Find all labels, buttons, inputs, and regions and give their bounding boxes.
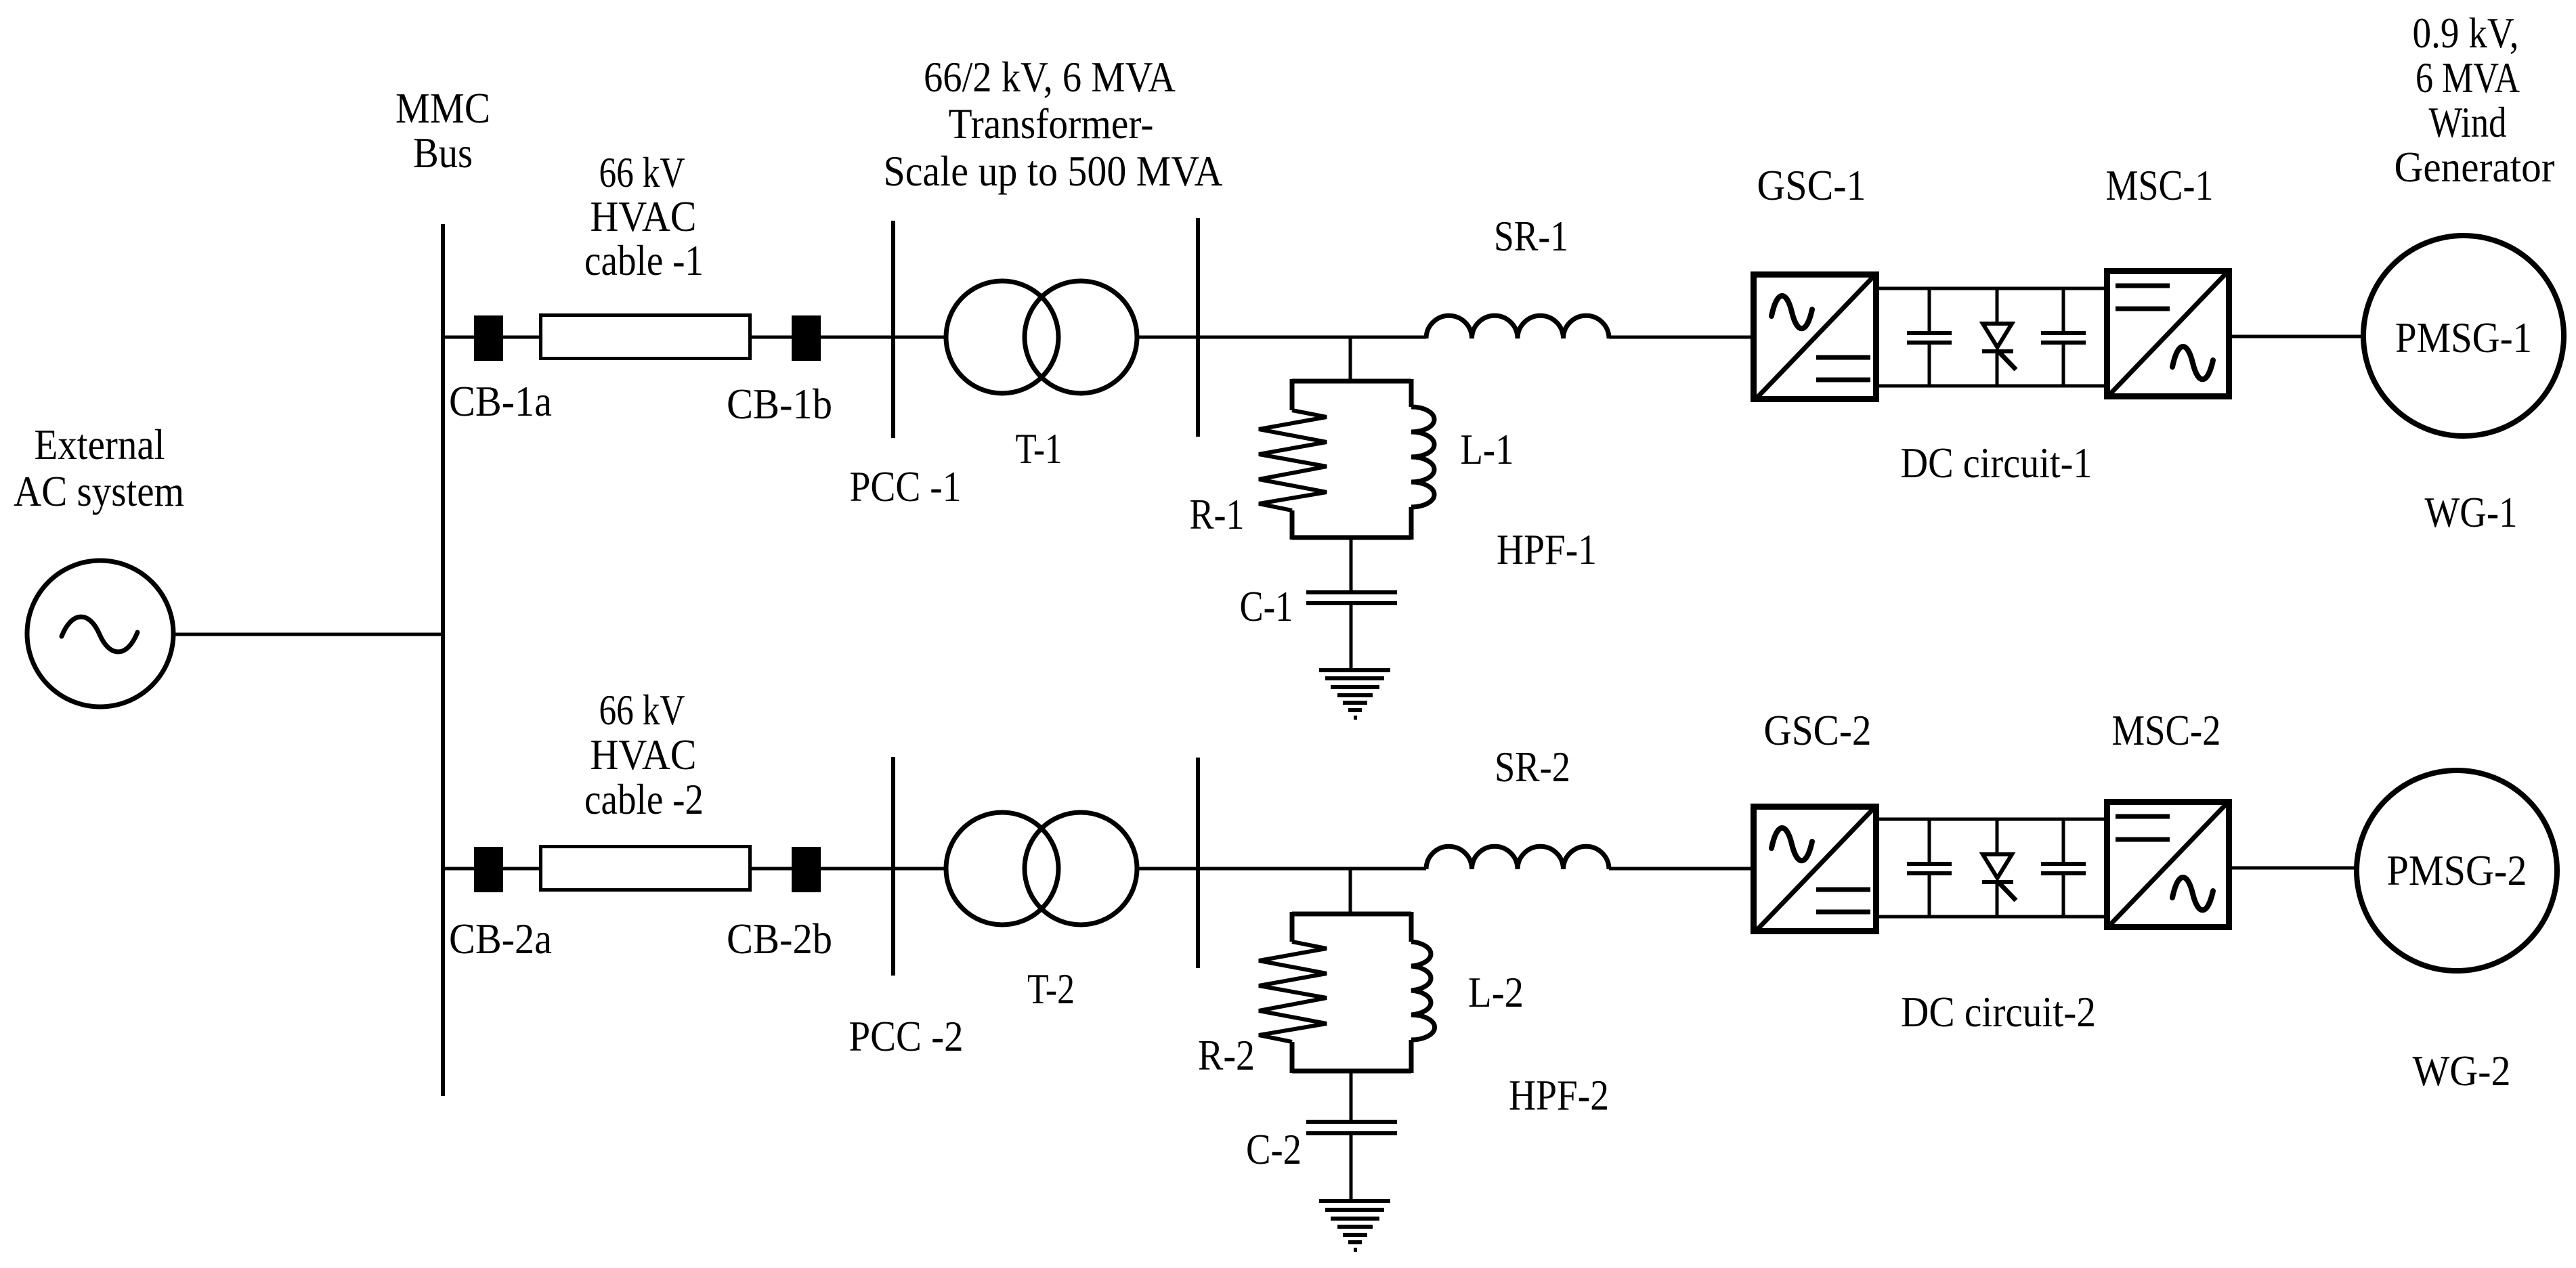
HPF-2 bottom conductor xyxy=(1292,1069,1411,1074)
DC rail top (circuit 1) xyxy=(1879,287,2105,290)
GSC-2 DC bars xyxy=(1816,890,1870,912)
svg-text:L-1: L-1 xyxy=(1461,425,1514,473)
svg-text:CB-1b: CB-1b xyxy=(727,380,832,428)
circuit breaker CB-1a xyxy=(474,315,503,361)
svg-text:R-2: R-2 xyxy=(1198,1031,1255,1079)
svg-text:C-1: C-1 xyxy=(1240,582,1293,630)
ground (HPF-2) xyxy=(1319,1201,1390,1250)
series reactor SR-2 xyxy=(1426,846,1609,869)
capacitor (DC2 left) plates xyxy=(1907,864,1952,873)
capacitor lead (DC1 left, bottom) xyxy=(1928,343,1931,386)
svg-text:PCC -2: PCC -2 xyxy=(849,1012,964,1060)
svg-text:SR-1: SR-1 xyxy=(1494,212,1568,260)
resistor R-2 zigzag xyxy=(1259,942,1327,1042)
capacitor lead (DC2 left, top) xyxy=(1928,819,1931,864)
svg-text:WG-1: WG-1 xyxy=(2425,488,2518,536)
svg-text:DC circuit-2: DC circuit-2 xyxy=(1901,988,2096,1036)
svg-text:66 kV: 66 kV xyxy=(599,148,685,196)
wire: MSC-2 to PMSG-2 xyxy=(2232,867,2357,870)
svg-text:cable -2: cable -2 xyxy=(584,775,704,823)
converter MSC-1 box xyxy=(2107,271,2229,397)
generator PMSG-2 circle xyxy=(2357,770,2557,971)
HPF-2 left drop to resistor xyxy=(1290,912,1295,942)
ground (HPF-1) xyxy=(1319,670,1390,718)
wire: HPF-1 to capacitor C-1 xyxy=(1350,538,1353,592)
bus bar PCC-2 xyxy=(891,757,895,976)
MSC-2 DC bars xyxy=(2116,816,2170,839)
HPF-1 right drop below inductor xyxy=(1409,507,1414,540)
HPF-2 left drop below resistor xyxy=(1290,1042,1295,1073)
svg-text:L-2: L-2 xyxy=(1468,968,1524,1016)
DC rail bottom (circuit 2) xyxy=(1879,915,2105,919)
generator PMSG-1 circle xyxy=(2363,236,2564,436)
wire: cable-2 to CB-2b xyxy=(752,867,792,871)
bus bar (2 kV side, circuit 1) xyxy=(1196,218,1200,437)
inductor L-2 coils xyxy=(1411,942,1435,1040)
svg-text:MSC-2: MSC-2 xyxy=(2112,706,2221,754)
svg-text:cable -1: cable -1 xyxy=(584,236,704,284)
DC rail top (circuit 2) xyxy=(1879,818,2105,821)
thyristor lead bottom (DC1) xyxy=(1996,351,1999,386)
capacitor lead (DC2 right, top) xyxy=(2062,819,2065,864)
wire: bus to CB-2a xyxy=(443,867,474,871)
svg-text:HVAC: HVAC xyxy=(591,192,697,240)
capacitor (DC1 left) plates xyxy=(1907,333,1952,343)
transformer T-1 xyxy=(946,281,1137,393)
svg-text:HPF-1: HPF-1 xyxy=(1497,525,1597,573)
svg-text:Bus: Bus xyxy=(413,129,473,177)
bus bar PCC-1 xyxy=(891,221,895,438)
capacitor lead (DC2 left, bottom) xyxy=(1928,873,1931,917)
wire: CB-2b to transformer T-2 xyxy=(821,867,948,871)
svg-text:Transformer-: Transformer- xyxy=(949,100,1154,148)
MSC-2 AC sine xyxy=(2172,877,2213,910)
node stub to HPF-1 xyxy=(1349,337,1352,383)
thyristor cathode bar (DC1) xyxy=(1982,349,2013,353)
svg-text:HVAC: HVAC xyxy=(591,730,697,779)
svg-text:GSC-2: GSC-2 xyxy=(1764,706,1872,754)
capacitor lead (DC1 right, top) xyxy=(2062,288,2065,333)
thyristor triangle (DC1) xyxy=(1983,324,2012,347)
GSC-1 AC sine xyxy=(1772,296,1812,328)
capacitor C-2 top plate xyxy=(1306,1120,1397,1124)
node stub to HPF-2 xyxy=(1349,869,1352,915)
svg-text:Generator: Generator xyxy=(2395,143,2555,191)
GSC-2 diagonal xyxy=(1757,808,1874,930)
wire: SR-1 to GSC-1 xyxy=(1609,336,1751,339)
capacitor C-1 top plate xyxy=(1306,590,1397,594)
wire: AC source to MMC bus xyxy=(171,633,443,636)
wire: bus to CB-1a xyxy=(443,336,474,339)
HPF-2 top conductor xyxy=(1292,912,1411,917)
svg-text:HPF-2: HPF-2 xyxy=(1509,1071,1609,1119)
capacitor lead (DC1 right, bottom) xyxy=(2062,343,2065,386)
wire: MSC-1 to PMSG-1 xyxy=(2232,335,2365,338)
svg-text:T-1: T-1 xyxy=(1016,424,1062,473)
svg-text:0.9 kV,: 0.9 kV, xyxy=(2413,9,2519,57)
capacitor (DC2 right) plates xyxy=(2041,864,2086,873)
circuit breaker CB-2b xyxy=(792,847,821,892)
wire: transformer T-2 to SR-2 xyxy=(1136,867,1426,871)
wire: HPF-2 to capacitor C-2 xyxy=(1350,1071,1353,1122)
wire: CB-2a to cable-2 xyxy=(503,867,539,871)
wire: cable-1 to CB-1b xyxy=(752,336,792,339)
HPF-1 top conductor xyxy=(1292,379,1411,384)
MSC-1 AC sine xyxy=(2172,347,2213,379)
svg-text:PMSG-1: PMSG-1 xyxy=(2395,313,2532,362)
HPF-2 right drop to inductor xyxy=(1409,912,1414,942)
thyristor gate stroke (DC1) xyxy=(1998,351,2016,370)
svg-text:GSC-1: GSC-1 xyxy=(1757,161,1866,209)
GSC-2 AC sine xyxy=(1772,828,1812,860)
HPF-1 left drop to resistor xyxy=(1290,379,1295,410)
svg-text:CB-1a: CB-1a xyxy=(449,377,552,425)
AC source: external AC system xyxy=(27,561,173,707)
HPF-1 bottom conductor xyxy=(1292,535,1411,540)
svg-text:SR-2: SR-2 xyxy=(1495,743,1570,791)
converter GSC-1 box xyxy=(1754,275,1876,399)
svg-text:PMSG-2: PMSG-2 xyxy=(2387,846,2527,894)
wire: CB-1b to transformer T-1 xyxy=(821,336,948,339)
thyristor lead top (DC1) xyxy=(1996,288,1999,325)
svg-text:WG-2: WG-2 xyxy=(2413,1047,2511,1095)
converter GSC-2 box xyxy=(1754,807,1876,932)
capacitor lead (DC1 left, top) xyxy=(1928,288,1931,333)
thyristor lead top (DC2) xyxy=(1996,819,1999,856)
converter MSC-2 box xyxy=(2107,802,2229,927)
thyristor cathode bar (DC2) xyxy=(1982,880,2013,884)
svg-text:CB-2a: CB-2a xyxy=(449,915,552,963)
svg-text:DC circuit-1: DC circuit-1 xyxy=(1901,439,2092,487)
svg-text:R-1: R-1 xyxy=(1190,490,1245,538)
wire: C-2 to ground xyxy=(1350,1133,1353,1201)
DC rail bottom (circuit 1) xyxy=(1879,385,2105,388)
bus bar (2 kV side, circuit 2) xyxy=(1196,758,1200,968)
wire: CB-1a to cable-1 xyxy=(503,336,539,339)
HVAC cable-2 box xyxy=(541,847,750,890)
circuit breaker CB-2a xyxy=(474,847,503,892)
HPF-1 right drop to inductor xyxy=(1409,379,1414,407)
transformer T-2 xyxy=(946,812,1137,925)
series reactor SR-1 xyxy=(1426,315,1609,338)
HVAC cable-1 box xyxy=(541,315,750,359)
GSC-1 diagonal xyxy=(1757,276,1874,398)
svg-text:Wind: Wind xyxy=(2429,98,2507,146)
svg-text:Scale up to 500 MVA: Scale up to 500 MVA xyxy=(884,147,1223,195)
MSC-2 diagonal xyxy=(2110,802,2228,925)
resistor R-1 zigzag xyxy=(1259,410,1327,510)
svg-text:MMC: MMC xyxy=(395,84,490,132)
circuit breaker CB-1b xyxy=(792,315,821,361)
svg-text:6 MVA: 6 MVA xyxy=(2416,53,2520,102)
inductor L-1 coils xyxy=(1411,407,1434,507)
svg-text:CB-2b: CB-2b xyxy=(727,915,832,963)
capacitor C-2 bottom plate xyxy=(1306,1131,1397,1135)
GSC-1 DC bars xyxy=(1816,357,1870,380)
wire: SR-2 to GSC-2 xyxy=(1609,867,1751,871)
svg-text:PCC -1: PCC -1 xyxy=(850,462,962,510)
svg-text:External: External xyxy=(35,420,165,468)
AC source sine symbol xyxy=(62,617,137,652)
capacitor lead (DC2 right, bottom) xyxy=(2062,873,2065,917)
svg-text:66 kV: 66 kV xyxy=(599,686,685,734)
thyristor triangle (DC2) xyxy=(1983,854,2012,878)
MSC-1 DC bars xyxy=(2116,286,2170,309)
wire: transformer T-1 to SR-1 xyxy=(1136,336,1426,339)
svg-text:66/2 kV, 6 MVA: 66/2 kV, 6 MVA xyxy=(924,53,1176,101)
HPF-2 right drop below inductor xyxy=(1409,1040,1414,1073)
svg-text:MSC-1: MSC-1 xyxy=(2106,161,2214,209)
wire: C-1 to ground xyxy=(1350,603,1353,670)
MSC-1 diagonal xyxy=(2110,271,2228,394)
thyristor lead bottom (DC2) xyxy=(1996,882,1999,917)
svg-text:AC system: AC system xyxy=(14,467,184,515)
HPF-1 left drop below resistor xyxy=(1290,510,1295,540)
svg-text:C-2: C-2 xyxy=(1246,1125,1302,1173)
svg-text:T-2: T-2 xyxy=(1027,965,1075,1013)
thyristor gate stroke (DC2) xyxy=(1998,882,2016,900)
capacitor (DC1 right) plates xyxy=(2041,333,2086,343)
MMC bus bar xyxy=(441,224,445,1096)
capacitor C-1 bottom plate xyxy=(1306,601,1397,605)
